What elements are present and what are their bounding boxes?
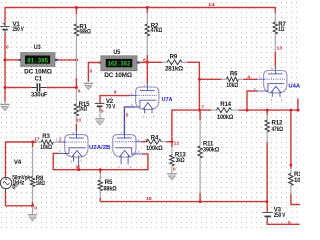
- svg-text:13: 13: [277, 45, 283, 51]
- wire net14 top rail: [5, 8, 275, 23]
- svg-text:162.382: 162.382: [108, 60, 131, 68]
- svg-text:R3: R3: [42, 133, 50, 140]
- ground U5: [84, 83, 93, 89]
- U4A plate pin stub: [274, 67, 276, 71]
- U2A pin marks: [56, 131, 83, 163]
- svg-text:14: 14: [208, 2, 215, 8]
- resistor R16: [289, 110, 300, 204]
- wire V3 bottom out right: [267, 221, 300, 225]
- svg-text:R9: R9: [170, 54, 178, 61]
- svg-text:R14: R14: [220, 101, 231, 108]
- U2A plate pin stub: [75, 131, 77, 135]
- svg-text:3: 3: [75, 164, 78, 170]
- svg-text:U5: U5: [113, 49, 120, 56]
- capacitor C1: [31, 83, 47, 91]
- svg-text:1Ω: 1Ω: [278, 26, 284, 33]
- svg-text:15: 15: [146, 196, 152, 202]
- junction U2A cathode pin: [77, 168, 80, 171]
- svg-text:68kΩ: 68kΩ: [79, 28, 91, 35]
- svg-text:0: 0: [288, 220, 291, 226]
- junction R2 top: [146, 6, 149, 9]
- resistor R12: [265, 110, 269, 202]
- junction V4 R8 ground: [31, 204, 34, 207]
- wire node17 row V4 to R3: [6, 142, 37, 177]
- junction R16 mid: [290, 164, 293, 167]
- U7A plate pin stub: [146, 83, 148, 87]
- wire V4 bottom to R8 bottom: [6, 192, 33, 206]
- wire node5 U2B plate to U7A cathode: [124, 107, 135, 135]
- wire U5 right to node8: [140, 61, 148, 63]
- source V4: [0, 177, 11, 192]
- svg-text:100kΩ: 100kΩ: [146, 145, 163, 152]
- junction V3 top: [265, 200, 268, 203]
- svg-text:U3: U3: [34, 44, 41, 51]
- svg-text:3kΩ: 3kΩ: [176, 157, 185, 164]
- resistor R11: [198, 110, 202, 202]
- junction node4 row: [198, 78, 201, 81]
- svg-text:0°: 0°: [12, 184, 18, 191]
- junction R16 top: [289, 109, 292, 112]
- svg-text:47kΩ: 47kΩ: [272, 126, 284, 133]
- wire node8 to R9: [147, 61, 162, 63]
- svg-text:281kΩ: 281kΩ: [165, 65, 183, 72]
- ground left rail: [0, 102, 9, 111]
- svg-text:81.385: 81.385: [27, 57, 48, 65]
- junction U3 left tee: [4, 58, 7, 61]
- svg-text:0: 0: [6, 44, 9, 50]
- svg-text:68kΩ: 68kΩ: [104, 186, 117, 193]
- svg-text:0: 0: [101, 108, 104, 114]
- svg-text:10: 10: [76, 117, 81, 123]
- svg-text:10kΩ: 10kΩ: [40, 144, 52, 151]
- wire U5 left to ground: [88, 63, 100, 82]
- resistor R2: [145, 8, 149, 84]
- svg-text:10kΩ: 10kΩ: [226, 82, 238, 89]
- svg-text:12: 12: [174, 141, 180, 147]
- junction R8 top: [31, 141, 34, 144]
- battery V3: [262, 202, 272, 221]
- svg-text:330uF: 330uF: [31, 92, 48, 99]
- wire right edge stub: [297, 98, 299, 110]
- multimeter U3: [19, 53, 58, 67]
- svg-text:U4A: U4A: [288, 84, 300, 90]
- svg-text:1MΩ: 1MΩ: [36, 180, 45, 187]
- junction R12 top: [266, 109, 269, 112]
- wire node9 V2 to U7A grid: [100, 96, 130, 103]
- resistor R7: [273, 13, 277, 67]
- U4A pin marks: [254, 67, 283, 102]
- junction R5 top: [99, 168, 102, 171]
- svg-text:4: 4: [247, 74, 250, 80]
- wire U2A cathode to bottom rail: [53, 153, 148, 169]
- svg-text:DC 10MΩ: DC 10MΩ: [24, 69, 52, 76]
- svg-text:8: 8: [143, 57, 146, 63]
- svg-text:70 V: 70 V: [106, 104, 116, 111]
- wire U4A cathode to net110: [247, 91, 258, 110]
- junction node 7: [198, 109, 201, 112]
- triode U2B: [113, 135, 142, 165]
- svg-text:9: 9: [114, 90, 117, 96]
- svg-text:V4: V4: [14, 159, 22, 166]
- resistor R8: [30, 142, 34, 206]
- ground R13: [167, 171, 176, 180]
- U2B pin marks: [118, 131, 140, 169]
- resistor R6: [221, 77, 257, 81]
- svg-text:390kΩ: 390kΩ: [203, 146, 219, 153]
- junction R1 top: [75, 6, 78, 9]
- wire U3 right to R1: [58, 59, 77, 61]
- ground V4 R8: [28, 206, 37, 221]
- resistor R4: [146, 139, 172, 144]
- svg-text:U7A: U7A: [162, 97, 173, 103]
- svg-text:0: 0: [34, 205, 37, 211]
- wire U2B grid to R4: [142, 141, 146, 143]
- junction C1 left tee: [4, 86, 7, 89]
- svg-text:DC 10MΩ: DC 10MΩ: [104, 72, 132, 79]
- resistor R14: [211, 108, 238, 113]
- svg-text:100kΩ: 100kΩ: [217, 114, 233, 121]
- junction node 8: [146, 61, 149, 64]
- triode U7A: [130, 87, 159, 113]
- wire junction to R6: [199, 78, 221, 80]
- U7A pin marks: [131, 83, 155, 118]
- resistor R3: [36, 140, 59, 144]
- triode U4A: [258, 71, 287, 97]
- svg-text:U2A/2B: U2A/2B: [89, 145, 110, 151]
- junction right edge stub: [296, 109, 299, 112]
- junction node 6: [75, 86, 78, 89]
- svg-text:C1: C1: [35, 76, 43, 83]
- svg-text:R4: R4: [151, 134, 159, 141]
- svg-text:1kΩ: 1kΩ: [79, 106, 88, 113]
- svg-text:5: 5: [126, 112, 129, 118]
- wire U3 left: [5, 59, 21, 61]
- svg-text:R6: R6: [230, 71, 238, 78]
- resistor R1: [74, 8, 78, 88]
- svg-text:0: 0: [90, 69, 93, 75]
- resistor R13: [170, 142, 174, 171]
- svg-text:10kΩ: 10kΩ: [294, 177, 300, 184]
- wire C1 row: [5, 87, 76, 89]
- svg-text:6: 6: [78, 89, 81, 95]
- ground V2: [95, 111, 104, 125]
- resistor R9: [162, 60, 199, 79]
- battery V1: [0, 23, 9, 34]
- multimeter U5: [99, 56, 140, 71]
- triode U2A: [59, 135, 88, 165]
- wire node7 vertical: [198, 79, 200, 110]
- battery V2: [95, 103, 105, 111]
- junction node 12: [170, 140, 173, 143]
- junction R11 bottom: [199, 200, 202, 203]
- resistor R5: [98, 170, 102, 202]
- svg-text:250 V: 250 V: [13, 26, 25, 33]
- junction U3 right on R1 lead: [75, 58, 78, 61]
- svg-text:0: 0: [173, 167, 176, 173]
- junction U4A cathode drop: [246, 109, 249, 112]
- wire net15 bottom bus: [100, 201, 267, 203]
- wire net110 row: [172, 110, 300, 142]
- svg-text:47kΩ: 47kΩ: [151, 27, 163, 34]
- resistor R15: [74, 88, 78, 131]
- wire U2A cathode pin stub: [78, 165, 80, 170]
- svg-text:250 V: 250 V: [274, 212, 286, 219]
- wire V1 minus rail: [4, 34, 6, 102]
